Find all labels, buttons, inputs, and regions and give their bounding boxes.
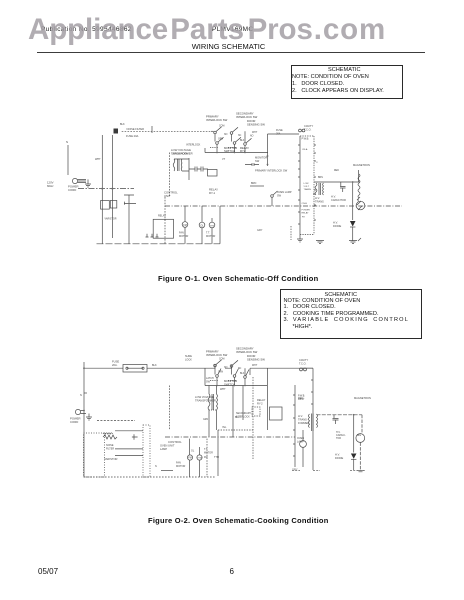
svg-text:RY-1: RY-1 [209, 191, 216, 195]
wire [250, 367, 268, 369]
switch S2 [216, 142, 219, 145]
svg-text:BRN: BRN [318, 177, 323, 179]
cap small [252, 163, 254, 166]
fuse F1 [123, 365, 147, 373]
svg-text:CAVITY: CAVITY [304, 124, 313, 128]
svg-text:NOISE FILTER: NOISE FILTER [127, 127, 145, 131]
wire [244, 131, 246, 142]
wire [360, 415, 362, 470]
wire [314, 181, 360, 183]
power plug P1 [72, 178, 77, 183]
svg-text:TRANS-: TRANS- [298, 417, 308, 421]
svg-text:T.C.O.: T.C.O. [299, 361, 307, 365]
junction dots [216, 152, 218, 154]
capacitor C2 [201, 167, 203, 172]
svg-text:POWER: POWER [302, 210, 311, 212]
wire [232, 386, 234, 438]
switch S3 [230, 132, 233, 135]
svg-text:DIODE: DIODE [333, 224, 341, 228]
wire [217, 430, 219, 476]
junction cross [132, 434, 138, 440]
wire [67, 145, 69, 175]
bottom dashed rail [84, 476, 215, 478]
switch S5 [244, 376, 247, 379]
svg-text:T.C.O.: T.C.O. [304, 127, 312, 131]
wire [225, 365, 232, 369]
svg-text:NC: NC [238, 135, 242, 137]
power line [78, 188, 134, 190]
schematic figure O-1 SVG placeholder [0, 105, 464, 250]
transformer T1 [173, 159, 175, 171]
wire [317, 414, 363, 416]
svg-text:WHT: WHT [95, 158, 101, 161]
svg-text:TRANSFORMER: TRANSFORMER [171, 151, 193, 155]
relay RY2 box [270, 407, 283, 420]
node B [101, 188, 103, 190]
wire [205, 385, 267, 387]
power plug P1 [75, 409, 80, 414]
wire [205, 152, 268, 154]
svg-text:CORD: CORD [68, 188, 76, 192]
svg-text:H.V.: H.V. [315, 196, 320, 200]
relay RY1 [208, 170, 218, 177]
wire [184, 206, 186, 244]
magnetron MG [356, 434, 365, 443]
svg-text:GRY: GRY [257, 229, 263, 232]
svg-text:MAGNETRON: MAGNETRON [353, 163, 370, 167]
svg-text:H.V.: H.V. [298, 414, 303, 418]
wire [189, 168, 208, 170]
svg-text:WHT: WHT [220, 388, 226, 391]
wire [268, 133, 300, 135]
svg-text:VARISTOR: VARISTOR [105, 218, 117, 221]
svg-text:INTERLOCK: INTERLOCK [186, 144, 201, 147]
node C [267, 155, 269, 157]
transformer T1 [208, 394, 210, 410]
wire tick [151, 126, 153, 133]
svg-text:INTERLOCK: INTERLOCK [236, 415, 250, 418]
svg-text:20A.: 20A. [112, 363, 118, 367]
header center: model number [212, 26, 253, 33]
svg-text:YEL: YEL [222, 427, 227, 429]
svg-text:MAGNETRON: MAGNETRON [354, 396, 371, 400]
junction dots [216, 385, 218, 387]
svg-text:TTM: TTM [210, 225, 214, 227]
svg-text:DIODE: DIODE [335, 456, 343, 460]
svg-text:CN-B: CN-B [302, 203, 308, 205]
dashed box 2 [143, 425, 150, 477]
wire [174, 159, 189, 171]
oven lamp wire [302, 430, 304, 467]
switch S4 [233, 375, 236, 378]
footer date [38, 567, 58, 576]
wire [268, 367, 314, 369]
svg-text:FUSE 20A.: FUSE 20A. [126, 134, 139, 138]
control unit box [299, 136, 301, 235]
svg-text:NO: NO [224, 134, 228, 136]
switch S1 [214, 364, 217, 367]
svg-text:TOR: TOR [336, 437, 341, 440]
chassis ground 4 [297, 235, 303, 243]
svg-text:BLK: BLK [240, 373, 245, 375]
svg-text:VOLT: VOLT [304, 186, 310, 188]
svg-text:CAVITY: CAVITY [299, 358, 308, 362]
svg-text:TTM: TTM [214, 456, 219, 459]
bracket marks [124, 195, 136, 205]
svg-text:WHT: WHT [252, 132, 258, 134]
svg-text:SENSING SW: SENSING SW [247, 357, 265, 361]
hv transformer primary [315, 183, 317, 195]
wire [215, 134, 217, 153]
svg-text:TRANS: TRANS [315, 199, 324, 203]
power relay box [153, 219, 173, 238]
wire [231, 130, 233, 132]
svg-text:BLK: BLK [120, 123, 125, 126]
switch S5 [244, 143, 247, 146]
svg-text:P.W.B.: P.W.B. [302, 137, 310, 141]
hv capacitor [333, 415, 339, 424]
svg-text:TRANSFORMER: TRANSFORMER [195, 398, 216, 402]
svg-text:LAMP: LAMP [297, 440, 304, 443]
wire [353, 415, 355, 470]
header rule [37, 51, 425, 54]
capacitor C1 [195, 167, 197, 172]
svg-text:FM: FM [204, 456, 207, 459]
hv transformer [309, 414, 310, 428]
gnd right [357, 470, 364, 472]
wire [211, 130, 213, 132]
wire [358, 170, 360, 182]
wire [83, 362, 85, 477]
svg-text:SW: SW [206, 380, 211, 383]
svg-text:GRN: GRN [203, 419, 208, 421]
oven lamp OL [300, 441, 307, 448]
node C [353, 414, 355, 416]
switch S1 [214, 131, 217, 134]
wire [169, 386, 171, 431]
svg-text:CN-A: CN-A [302, 148, 308, 151]
wire [218, 429, 253, 431]
wire [97, 420, 135, 422]
interlock dashes [210, 147, 236, 149]
wire [78, 179, 86, 188]
wire [219, 206, 221, 244]
svg-text:RED: RED [298, 397, 303, 400]
svg-text:FM: FM [188, 457, 191, 460]
svg-text:PRIMARY INTERLOCK SW: PRIMARY INTERLOCK SW [255, 169, 288, 173]
wire [169, 153, 171, 197]
svg-text:MOTOR: MOTOR [206, 235, 215, 238]
switch S2 [216, 375, 219, 378]
switch S3 [230, 365, 233, 368]
wire [352, 182, 354, 220]
svg-text:H.V.: H.V. [331, 195, 336, 199]
svg-text:FILTER: FILTER [106, 447, 114, 450]
wire [188, 158, 190, 180]
wire [201, 206, 203, 244]
switch S4 [233, 142, 236, 145]
wire [199, 447, 201, 477]
thermal cutout [300, 368, 303, 371]
wire [128, 204, 130, 244]
dashed vertical x207 [206, 439, 208, 477]
small marks [300, 367, 313, 369]
chassis rail marks [292, 469, 365, 471]
svg-text:20A: 20A [276, 132, 281, 135]
svg-text:60Hz: 60Hz [47, 184, 54, 188]
fan motor FM [187, 455, 192, 460]
svg-text:LOCK: LOCK [185, 358, 192, 361]
hv diode D1 [350, 221, 356, 227]
svg-text:SENSING SW: SENSING SW [247, 122, 265, 126]
node D [267, 164, 269, 166]
bottom mark [161, 470, 173, 472]
svg-text:H.V.: H.V. [333, 221, 338, 225]
chassis ground 2 [316, 241, 324, 244]
coil L1 [103, 433, 113, 434]
wire [209, 410, 217, 437]
wire [242, 386, 244, 421]
svg-text:RELAY: RELAY [302, 212, 310, 215]
svg-text:VARISTOR: VARISTOR [104, 457, 118, 461]
oven lamp switch [271, 195, 274, 198]
wire [164, 197, 166, 244]
header title [0, 42, 457, 51]
interlock dashes [210, 380, 236, 382]
wire [81, 411, 86, 414]
wire [294, 385, 296, 467]
note box 2 [280, 289, 422, 339]
chassis ground 3 [349, 238, 361, 244]
wire [250, 185, 264, 187]
wire [244, 368, 246, 375]
wire [204, 148, 206, 153]
door sw drop [249, 368, 251, 375]
svg-text:MOTOR: MOTOR [179, 235, 188, 238]
dashed vertical [290, 226, 292, 240]
wire [205, 364, 215, 368]
svg-text:TTM: TTM [197, 458, 202, 460]
pin ticks left [298, 145, 300, 224]
svg-text:GRN: GRN [218, 372, 223, 374]
svg-text:TRANS: TRANS [304, 188, 312, 191]
magnetron gnd squiggle [357, 197, 362, 210]
svg-text:INTERLOCK SW: INTERLOCK SW [206, 353, 228, 357]
wire [312, 368, 314, 470]
svg-text:SW: SW [277, 194, 282, 197]
fan motor FM [182, 222, 188, 228]
wire [209, 386, 217, 395]
svg-text:H.V.: H.V. [335, 453, 340, 457]
svg-text:MONITOR: MONITOR [255, 156, 267, 160]
hv capacitor C3 [340, 182, 346, 192]
svg-text:CAPACITOR: CAPACITOR [331, 198, 346, 202]
svg-text:MOTOR: MOTOR [176, 465, 185, 468]
svg-text:BLK: BLK [152, 364, 157, 367]
node F [313, 193, 315, 195]
wire [84, 367, 205, 369]
node E [352, 181, 354, 183]
svg-text:RELAY: RELAY [257, 398, 266, 402]
wire [211, 218, 213, 244]
caption figure O-2 [148, 516, 329, 525]
dash-dot line [165, 436, 295, 438]
wire [215, 367, 217, 386]
node B [83, 410, 85, 412]
svg-text:LOW VOLTAGE: LOW VOLTAGE [195, 395, 214, 399]
wire [244, 379, 246, 386]
svg-text:F: F [317, 162, 319, 164]
svg-text:CORD: CORD [70, 420, 78, 424]
svg-text:MG: MG [357, 433, 361, 437]
pin ticks right [314, 145, 316, 220]
wire [232, 368, 235, 386]
caption figure O-1 [158, 274, 318, 283]
turntable motor TTM [209, 222, 215, 228]
caps to ground [146, 234, 159, 237]
svg-text:COM: COM [219, 359, 224, 361]
dash-dot line [165, 205, 402, 207]
svg-text:N: N [80, 394, 82, 397]
svg-text:RY-2: RY-2 [257, 401, 263, 405]
wire [111, 135, 113, 238]
svg-text:BLK: BLK [240, 140, 245, 142]
hv diode D1 [351, 454, 357, 459]
wire [267, 134, 269, 166]
magnetron MG [356, 201, 365, 210]
schematic figure O-2 SVG placeholder [0, 345, 464, 480]
svg-text:FORMER: FORMER [298, 421, 309, 425]
svg-text:UNIT: UNIT [168, 443, 175, 447]
wire [189, 439, 191, 477]
chassis ground [86, 414, 92, 421]
wire [245, 164, 259, 166]
note box 1 [291, 65, 403, 99]
svg-text:FM: FM [183, 224, 187, 227]
wire [357, 199, 359, 201]
thermal cutout TCO [299, 129, 302, 132]
lvt sec ticks [209, 409, 217, 411]
svg-text:WHT: WHT [252, 365, 258, 367]
dashed box [84, 433, 105, 477]
svg-text:NO: NO [250, 136, 254, 138]
turntable motor TTM [197, 455, 202, 460]
svg-text:MOTOR: MOTOR [204, 451, 213, 454]
svg-text:GRY: GRY [292, 468, 298, 472]
wire [101, 135, 103, 244]
wire [204, 368, 206, 385]
svg-text:FUSE: FUSE [112, 360, 119, 364]
bus rail [97, 243, 221, 245]
wire [232, 135, 235, 153]
svg-text:RELAY: RELAY [158, 215, 166, 218]
chassis ground [85, 179, 91, 187]
varistor RV1 [103, 435, 117, 439]
wire [267, 368, 269, 430]
wire [352, 227, 354, 241]
footer page number [230, 567, 234, 576]
header left: publication number [41, 26, 132, 33]
svg-text:GRN: GRN [218, 139, 223, 141]
svg-text:COM: COM [219, 126, 224, 128]
hv transformer secondary [358, 174, 360, 198]
pin ticks2 [293, 380, 313, 456]
node A [83, 367, 85, 369]
dashed vertical 2 [252, 377, 254, 460]
wire [271, 198, 273, 207]
relay ry1 box2 [252, 407, 260, 416]
svg-text:N: N [66, 140, 68, 144]
svg-text:VT: VT [222, 158, 226, 161]
svg-text:OL: OL [191, 450, 195, 453]
svg-text:INTERLOCK SW: INTERLOCK SW [206, 118, 228, 122]
oven lamp OL [199, 222, 205, 228]
connector rects [101, 201, 110, 210]
fuse block [114, 129, 119, 134]
wire tick2 [84, 392, 87, 394]
svg-text:RY: RY [302, 217, 306, 219]
noise filter dashed leader [122, 130, 211, 132]
svg-text:SW: SW [255, 159, 260, 163]
svg-text:N: N [155, 465, 157, 468]
watermark AppliancePartsPros.com [28, 13, 168, 47]
wire [244, 146, 246, 153]
svg-text:OVEN: OVEN [160, 444, 167, 448]
svg-text:LAMP: LAMP [160, 447, 167, 451]
svg-text:LOW: LOW [304, 183, 310, 185]
wire [115, 431, 143, 456]
svg-text:BRN: BRN [251, 182, 256, 185]
svg-text:RED: RED [334, 170, 339, 172]
